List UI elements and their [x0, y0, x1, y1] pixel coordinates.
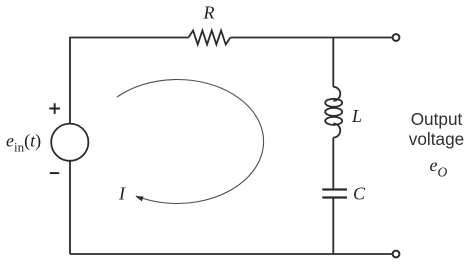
capacitor C — [322, 190, 347, 198]
svg-text:Output: Output — [411, 109, 463, 129]
wire bottom: from left vertical to output terminal — [70, 253, 393, 255]
label + (source polarity) — [49, 103, 60, 114]
svg-text:eO: eO — [430, 155, 448, 180]
wire: capacitor to bottom wire — [332, 198, 334, 255]
wire: left vertical lower segment — [69, 161, 71, 254]
current loop arrow — [117, 79, 264, 203]
wire top: resistor to output terminal — [230, 37, 392, 39]
terminal bottom-right — [393, 251, 400, 258]
voltage source circle — [51, 124, 88, 161]
current loop arrowhead — [135, 196, 143, 201]
terminal top-right — [393, 34, 400, 41]
svg-text:R: R — [203, 3, 215, 23]
resistor R — [188, 31, 230, 45]
wire: inductor to capacitor — [332, 138, 334, 190]
label - (source polarity) — [50, 172, 59, 174]
svg-text:I: I — [118, 184, 126, 204]
svg-text:voltage: voltage — [409, 129, 464, 149]
wire top-left: left vertical upper segment and top horizontal to resistor — [70, 38, 188, 124]
svg-text:C: C — [353, 184, 366, 204]
inductor L — [325, 87, 342, 138]
svg-text:L: L — [351, 106, 362, 126]
wire: right branch from top wire down to inductor — [332, 38, 334, 87]
svg-text:ein(t): ein(t) — [6, 131, 41, 155]
